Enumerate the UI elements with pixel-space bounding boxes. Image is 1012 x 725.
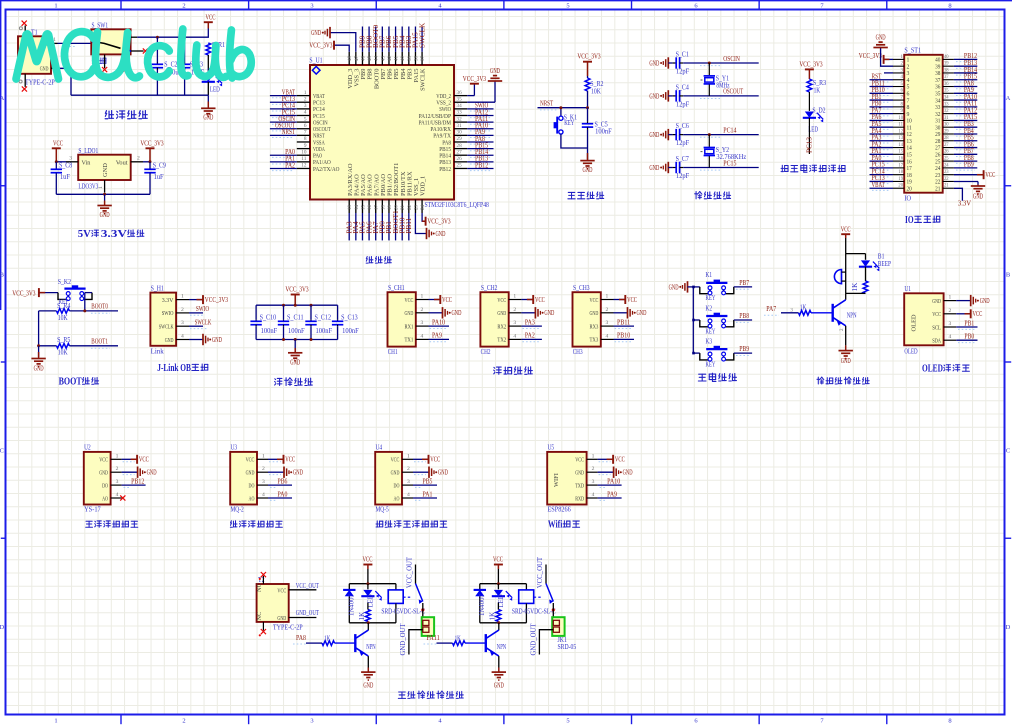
svg-text:VCC: VCC	[497, 297, 506, 304]
svg-text:VCC_OUT: VCC_OUT	[407, 556, 414, 588]
svg-text:18: 18	[907, 173, 912, 179]
svg-text:VCC: VCC	[405, 297, 414, 304]
svg-text:NPN: NPN	[847, 311, 857, 319]
resistor S_R3 1K	[807, 79, 812, 92]
svg-text:U5: U5	[548, 444, 555, 452]
svg-text:1: 1	[513, 294, 516, 300]
module U3 MQ-2	[230, 452, 257, 505]
ground GND io pin2	[881, 48, 893, 67]
net label SWIO	[467, 108, 493, 110]
svg-text:GND: GND	[405, 310, 414, 317]
svg-text:NRST: NRST	[540, 99, 554, 107]
svg-text:34: 34	[944, 95, 949, 100]
resistor 1K alarm	[865, 267, 867, 281]
svg-text:YS-17: YS-17	[84, 506, 101, 514]
svg-text:VCC: VCC	[973, 310, 983, 318]
pin U1.34 SWIO	[454, 108, 467, 110]
svg-text:LDO3V3: LDO3V3	[78, 182, 98, 190]
svg-text:19: 19	[907, 180, 912, 186]
svg-text:4: 4	[606, 333, 609, 339]
capacitor S_C12 100nF	[310, 305, 312, 320]
svg-text:37: 37	[935, 78, 940, 84]
svg-text:6: 6	[304, 123, 307, 129]
svg-text:1: 1	[98, 186, 104, 189]
wire VCC rail	[137, 29, 208, 38]
svg-text:GND: GND	[497, 310, 506, 317]
pin T2 top no-connect	[262, 576, 264, 584]
wire key to ground rail	[561, 134, 588, 148]
svg-text:PB6: PB6	[278, 477, 288, 485]
jack SRD-05 terminal	[552, 617, 564, 636]
wire T1 GND down to ground rail	[58, 68, 72, 95]
pin ST1.35	[943, 92, 954, 94]
svg-text:1: 1	[116, 453, 119, 459]
svg-text:GND: GND	[147, 469, 157, 477]
module U5 ESP8266	[547, 452, 586, 505]
svg-text:100nF: 100nF	[261, 327, 278, 335]
node rail-C3	[183, 36, 186, 39]
svg-text:28: 28	[457, 143, 462, 149]
LED alarm	[865, 254, 867, 260]
wire emitter to gnd relay	[367, 656, 369, 667]
svg-text:GND: GND	[575, 470, 584, 477]
svg-text:GND: GND	[100, 211, 110, 219]
capacitor S_C11 100nF	[283, 305, 285, 320]
wire contact to jack	[552, 603, 554, 620]
transistor NPN relay	[498, 623, 500, 631]
net label PA8 io-right	[954, 86, 977, 88]
svg-text:RX1: RX1	[405, 323, 414, 330]
svg-text:4: 4	[592, 492, 595, 498]
net label PA1	[270, 161, 297, 163]
svg-text:34: 34	[457, 103, 462, 109]
svg-text:6: 6	[907, 92, 910, 98]
svg-text:PB0: PB0	[964, 333, 974, 341]
pin U1.28 PB15	[454, 148, 467, 150]
svg-text:SWCLK: SWCLK	[159, 324, 174, 331]
pin ST1.22	[943, 180, 954, 182]
svg-text:NRST: NRST	[282, 128, 296, 136]
capacitor S_C7 12pF	[668, 167, 672, 169]
wire filter bottom rail	[256, 339, 338, 341]
svg-text:1K: 1K	[490, 612, 497, 620]
svg-text:VCC_OUT: VCC_OUT	[537, 556, 544, 588]
MCUclub logo	[16, 34, 59, 79]
svg-text:14: 14	[907, 146, 912, 152]
svg-text:11: 11	[898, 123, 903, 128]
svg-text:12: 12	[898, 129, 903, 134]
resistor S_R5 10K	[57, 343, 70, 348]
svg-text:GND: GND	[452, 309, 462, 317]
pin ST1.8	[893, 106, 904, 108]
svg-text:3: 3	[907, 71, 910, 77]
svg-text:VCC: VCC	[575, 457, 584, 464]
wire S_C1 to pin	[683, 62, 759, 64]
svg-text:24: 24	[421, 205, 426, 211]
display U1 OLED	[904, 293, 943, 345]
net label OSCIN	[270, 121, 297, 123]
svg-text:5V: 5V	[78, 229, 92, 240]
svg-text:1: 1	[407, 453, 410, 459]
net label PA5 io-left	[870, 126, 894, 128]
pin ST1.24	[943, 167, 954, 169]
svg-text:26: 26	[457, 156, 462, 162]
svg-text:1uF: 1uF	[60, 173, 70, 181]
svg-text:C: C	[1006, 448, 1010, 455]
svg-text:PA10: PA10	[607, 477, 621, 485]
net label PA1 io-left	[870, 153, 894, 155]
svg-text:33: 33	[944, 102, 949, 107]
svg-text:GND: GND	[841, 357, 851, 365]
svg-text:45: 45	[368, 56, 373, 62]
svg-text:VCC_OUT: VCC_OUT	[296, 582, 320, 590]
svg-text:GND: GND	[544, 309, 554, 317]
relay coil SRD-05VDC-SL-C	[525, 584, 527, 590]
module U4 MQ-5	[375, 452, 402, 505]
net label PB13 io-right	[954, 65, 977, 67]
svg-text:1K: 1K	[324, 635, 330, 642]
svg-text:VCC_3V3: VCC_3V3	[859, 52, 882, 60]
net label PA0 io-left	[870, 160, 894, 162]
net label PB10 bottom	[401, 213, 403, 240]
power port VCC	[204, 21, 213, 23]
pin U1.22 PB11/RX	[408, 200, 410, 214]
svg-text:32: 32	[457, 116, 462, 122]
pin ST1.6	[893, 92, 904, 94]
svg-text:GND: GND	[165, 337, 174, 344]
net label PB0 oled	[956, 339, 977, 341]
net label SWIO jlink	[189, 312, 203, 314]
svg-text:3: 3	[949, 321, 952, 327]
pin T1 bottom no-connect	[24, 74, 26, 87]
wire io pin3 stub	[884, 72, 893, 74]
svg-text:TYPE-C-2P: TYPE-C-2P	[273, 624, 303, 632]
svg-text:28: 28	[935, 139, 940, 145]
pin T1.1 VCC	[51, 42, 58, 44]
wire K3 to PB9	[734, 352, 752, 354]
pin U1.6 OSCOUT	[297, 128, 310, 130]
ground GND relay	[498, 668, 500, 673]
ground GND boot	[38, 346, 40, 357]
pin U1.44 BOOT0	[375, 52, 377, 65]
pin U1.9 VDDA	[297, 148, 310, 150]
power port VCC_3V3 jlink	[189, 299, 203, 301]
pin U1.45 PB8	[368, 52, 370, 65]
pin T1 top no-connect	[24, 26, 26, 37]
svg-text:SWCLK: SWCLK	[195, 319, 212, 327]
connector T2 TYPE-C-2P out	[257, 584, 289, 622]
svg-text:OLED: OLED	[904, 347, 917, 355]
svg-text:Wifi: Wifi	[548, 520, 563, 531]
svg-text:2: 2	[182, 3, 185, 10]
wire BOOT0 row	[69, 310, 118, 312]
svg-text:D: D	[0, 624, 4, 631]
title 程序运行指示灯	[781, 165, 788, 171]
capacitor S_C3 10uF	[184, 37, 186, 62]
header S_H1 J-Link	[150, 293, 176, 346]
push button S_K1 KEY	[560, 116, 562, 117]
net label PA15 io-right	[954, 119, 977, 121]
svg-text:11: 11	[907, 125, 912, 131]
svg-text:2: 2	[606, 307, 609, 313]
node rail-C2	[156, 36, 159, 39]
svg-text:32: 32	[935, 112, 940, 118]
net label PB15	[467, 148, 493, 150]
svg-text:23: 23	[935, 173, 940, 179]
svg-text:5: 5	[566, 3, 569, 10]
title 电源电路	[105, 111, 113, 119]
pin U1.24 VDD_1	[421, 200, 423, 214]
pin U1.12 PA2/TX/AO	[297, 167, 310, 169]
svg-text:5: 5	[304, 116, 307, 122]
svg-text:GND: GND	[973, 193, 983, 201]
svg-text:GND: GND	[391, 470, 400, 477]
svg-text:20: 20	[907, 186, 912, 192]
svg-text:SRD-05VDC-SL-C: SRD-05VDC-SL-C	[512, 609, 556, 616]
svg-text:U1: U1	[904, 285, 911, 293]
svg-text:20: 20	[898, 184, 903, 189]
net label 3.3V io pin21	[954, 188, 963, 201]
net label PB4 top	[401, 27, 403, 52]
power port VCC_3V3 ldo out	[146, 147, 155, 149]
svg-text:KEY: KEY	[706, 360, 716, 368]
svg-text:TX3: TX3	[590, 337, 599, 344]
svg-text:3: 3	[407, 479, 410, 485]
net label PA9 S_CH1	[429, 338, 450, 340]
wire LED to PC13	[808, 118, 810, 154]
net label OSCOUT	[270, 128, 297, 130]
svg-text:3: 3	[310, 3, 313, 10]
svg-text:PA9: PA9	[607, 490, 617, 498]
svg-text:21: 21	[935, 186, 940, 192]
pin SW1 right-bottom no-connect	[131, 50, 144, 52]
net label PB5 top	[395, 27, 397, 52]
svg-text:GND: GND	[649, 59, 659, 67]
svg-text:1: 1	[181, 294, 184, 300]
wire filter top rail	[256, 304, 338, 306]
net label PB7 io-right	[954, 153, 977, 155]
svg-text:1: 1	[262, 453, 265, 459]
svg-text:PB9: PB9	[739, 345, 749, 353]
svg-text:SWIO: SWIO	[196, 305, 209, 313]
svg-text:4: 4	[407, 492, 410, 498]
svg-text:3: 3	[421, 320, 424, 326]
wire relay top rail	[349, 583, 396, 585]
net label PA6 bottom	[368, 213, 370, 240]
svg-text:GND: GND	[293, 469, 303, 477]
svg-text:PA3: PA3	[525, 318, 535, 326]
svg-text:BOOT0: BOOT0	[91, 303, 108, 311]
svg-text:U2: U2	[84, 444, 91, 452]
net label GND_OUT	[289, 617, 317, 619]
svg-text:NC: NC	[256, 612, 263, 621]
wire key2 to BOOT0	[85, 292, 92, 294]
wire gnd to keys rail	[688, 286, 700, 288]
svg-text:KEY: KEY	[564, 119, 574, 127]
pin U1.11 PA1/AO	[297, 161, 310, 163]
wire rail to K3	[693, 352, 700, 354]
pin ST1.1	[893, 58, 904, 60]
svg-text:SRD-05: SRD-05	[558, 644, 577, 651]
svg-text:27: 27	[457, 149, 462, 155]
svg-text:ESP8266: ESP8266	[548, 506, 572, 514]
svg-text:Link: Link	[151, 347, 165, 355]
svg-text:1N4007: 1N4007	[479, 593, 486, 616]
svg-text:16: 16	[898, 157, 903, 162]
pin U1.41 PB5	[395, 52, 397, 65]
header S_CH3	[573, 292, 601, 346]
title 复位电路	[568, 192, 575, 198]
svg-text:VCC: VCC	[627, 296, 637, 304]
pin ST1.13	[893, 140, 904, 142]
pin U1.13 PA3/RX/AO	[348, 200, 350, 214]
power port VCC U3	[268, 458, 284, 460]
svg-text:STM32F103C8T6_LQFP48: STM32F103C8T6_LQFP48	[425, 201, 490, 209]
wire jack pin2 GND_OUT	[409, 630, 423, 655]
title 继电器控制电路	[398, 692, 405, 698]
svg-text:S_C6: S_C6	[676, 122, 690, 130]
svg-text:39: 39	[935, 64, 940, 70]
wire contact to jack	[422, 603, 424, 620]
svg-text:32.768KHz: 32.768KHz	[716, 153, 746, 161]
capacitor S_C13 100nF	[337, 305, 339, 320]
pin U1.14 PA4/AO	[355, 200, 357, 214]
wire relay bottom rail	[480, 622, 527, 624]
power port VCC ldo	[52, 147, 61, 149]
ground GND S_C1	[667, 57, 669, 68]
title 按键电路	[698, 374, 706, 381]
title 滤波电路	[275, 378, 282, 385]
svg-text:GND: GND	[649, 92, 659, 100]
svg-text:VCC: VCC	[430, 456, 440, 464]
wire rail to K2	[693, 319, 700, 321]
no connect U2 AO	[120, 495, 125, 500]
power port VCC_3V3 VDD_2	[467, 95, 474, 97]
svg-text:12: 12	[907, 132, 912, 138]
pin U1.43 PB7	[381, 52, 383, 65]
connector T1 TYPE-C-2P	[18, 36, 51, 74]
net label PB0 io-left	[870, 106, 894, 108]
title 串口电路	[494, 367, 501, 374]
svg-text:DO: DO	[102, 482, 108, 489]
net label VBAT io-left	[870, 187, 894, 189]
ground GND jlink	[189, 339, 203, 341]
pin LDO1.3 Vin	[66, 161, 78, 163]
svg-text:IO: IO	[904, 195, 911, 203]
net label PB6 top	[388, 27, 390, 52]
svg-text:SWCLK: SWCLK	[418, 22, 426, 48]
net label PA2 S_CH2	[521, 338, 542, 340]
pin ST1.26	[943, 153, 954, 155]
svg-text:B: B	[0, 271, 5, 278]
pin U1.18 PB0/AO	[381, 200, 383, 214]
net label PB8 top	[368, 27, 370, 52]
svg-text:S_C2: S_C2	[164, 61, 178, 69]
svg-text:PB1: PB1	[964, 319, 974, 327]
pin U1.37 SWCLK	[421, 52, 423, 65]
svg-text:8: 8	[948, 3, 951, 10]
svg-text:44: 44	[375, 56, 380, 62]
svg-text:7: 7	[304, 130, 307, 136]
svg-text:38: 38	[414, 56, 419, 62]
svg-text:12pF: 12pF	[676, 68, 689, 76]
svg-text:1K: 1K	[851, 282, 859, 292]
push button S_K2 KEY	[58, 293, 68, 300]
wire node to key	[560, 108, 562, 116]
buzzer B1 BEEP	[845, 254, 847, 294]
svg-text:35: 35	[457, 96, 462, 102]
svg-text:8MHz: 8MHz	[716, 82, 729, 90]
pin ST1.33	[943, 106, 954, 108]
svg-text:PB11: PB11	[617, 318, 631, 326]
svg-text:OLED: OLED	[922, 364, 943, 375]
svg-text:OSCIN: OSCIN	[723, 55, 740, 63]
ground GND S_C6	[667, 129, 669, 140]
svg-text:38: 38	[935, 71, 940, 77]
net label PB4 io-right	[954, 133, 977, 135]
svg-text:K2: K2	[706, 304, 713, 312]
svg-text:PB9: PB9	[964, 161, 974, 169]
wire BOOT1 row	[69, 345, 118, 347]
svg-text:SWIO: SWIO	[162, 310, 174, 317]
svg-text:26: 26	[935, 153, 940, 159]
svg-text:GND: GND	[980, 297, 990, 305]
pin ST1.30	[943, 126, 954, 128]
pin ST1.28	[943, 140, 954, 142]
net label SWCLK jlink	[189, 325, 203, 327]
svg-text:GND: GND	[669, 283, 679, 291]
svg-text:8: 8	[948, 718, 951, 725]
svg-text:4: 4	[116, 492, 119, 498]
wire Vout to VCC_3V3	[143, 161, 150, 163]
svg-text:3: 3	[304, 103, 307, 109]
svg-text:3: 3	[592, 479, 595, 485]
svg-text:38: 38	[944, 68, 949, 73]
svg-text:2: 2	[949, 308, 952, 314]
svg-text:S_R5: S_R5	[57, 336, 71, 344]
ground GND U3	[268, 471, 284, 473]
svg-text:IO: IO	[905, 215, 914, 226]
svg-text:21: 21	[944, 184, 949, 189]
svg-text:A: A	[1006, 95, 1011, 102]
svg-text:Vout: Vout	[116, 159, 128, 166]
svg-text:27: 27	[935, 146, 940, 152]
svg-text:OLED: OLED	[911, 314, 918, 331]
net label PC13	[270, 101, 297, 103]
net label PB9 top	[361, 27, 363, 52]
svg-text:4: 4	[262, 492, 265, 498]
wire relay bottom rail	[349, 622, 396, 624]
svg-text:SCL: SCL	[932, 324, 941, 331]
svg-text:12pF: 12pF	[676, 101, 689, 109]
svg-text:39: 39	[408, 56, 413, 62]
net label PB5 U4	[413, 484, 437, 486]
svg-text:1: 1	[421, 294, 424, 300]
svg-text:GND: GND	[246, 470, 255, 477]
pin U1.27 PB14	[454, 154, 467, 156]
pin ST1.3	[893, 72, 904, 74]
pin U1.33 PA12/USB/DP	[454, 114, 467, 116]
net label PB6 io-right	[954, 147, 977, 149]
svg-text:VCC_3V3: VCC_3V3	[799, 61, 822, 69]
svg-text:MQ-5: MQ-5	[376, 506, 389, 514]
svg-text:PA2/TX/AO: PA2/TX/AO	[313, 166, 340, 173]
relay contact	[403, 596, 412, 598]
transistor NPN alarm	[845, 293, 847, 299]
svg-text:C: C	[0, 448, 4, 455]
svg-text:25: 25	[944, 157, 949, 162]
pin U1.3 PC14	[297, 108, 310, 110]
